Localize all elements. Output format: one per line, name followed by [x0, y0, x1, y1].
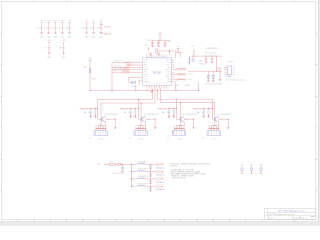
- svg-text:L4 BLM18PG: L4 BLM18PG: [137, 183, 148, 185]
- svg-text:10k: 10k: [167, 112, 170, 114]
- svg-text:J1: J1: [167, 137, 169, 139]
- svg-text:10k: 10k: [128, 112, 131, 114]
- svg-text:C4: C4: [51, 27, 53, 29]
- svg-text:+3V3: +3V3: [47, 20, 51, 22]
- svg-text:J1: J1: [89, 137, 91, 139]
- svg-text:OUT_1: OUT_1: [177, 139, 183, 141]
- svg-text:C8 1u: C8 1u: [199, 61, 203, 63]
- svg-text:Q1_NTR4003NT1G: Q1_NTR4003NT1G: [217, 114, 233, 116]
- svg-text:Sheet: /: Sheet: /: [269, 216, 276, 219]
- svg-text:File: WLED-AdvCtrl.kicad_sch: File: WLED-AdvCtrl.kicad_sch: [269, 213, 294, 216]
- svg-text:+3V3: +3V3: [40, 20, 44, 22]
- svg-text:Q1_NTR4003NT1G: Q1_NTR4003NT1G: [182, 114, 198, 116]
- svg-text:10k: 10k: [197, 112, 200, 114]
- svg-text:OUT_1: OUT_1: [212, 139, 218, 141]
- svg-text:R1: R1: [84, 67, 86, 69]
- svg-text:C9: C9: [82, 27, 84, 29]
- svg-text:OUT_1: OUT_1: [139, 139, 145, 141]
- svg-text:GND_IN: GND_IN: [104, 33, 112, 35]
- svg-text:+5V_CH4: +5V_CH4: [156, 186, 163, 188]
- svg-text:PWM_IN2: PWM_IN2: [120, 108, 129, 110]
- svg-text:J1: J1: [202, 137, 204, 139]
- svg-text:C6 1u: C6 1u: [168, 41, 172, 43]
- svg-text:+5V_CH2: +5V_CH2: [156, 171, 163, 173]
- svg-text:R6 10k: R6 10k: [185, 85, 191, 87]
- svg-text:C3: C3: [44, 27, 46, 29]
- svg-text:PWM_IN1: PWM_IN1: [80, 108, 89, 110]
- svg-text:VIN: VIN: [97, 164, 101, 166]
- svg-text:LED Wall Advance Ctrl: LED Wall Advance Ctrl: [278, 210, 306, 213]
- svg-text:10k: 10k: [88, 112, 91, 114]
- svg-text:PIC16F: PIC16F: [153, 72, 162, 75]
- svg-text:+5V_CH1: +5V_CH1: [156, 164, 163, 166]
- svg-text:C15 100uF 25V: C15 100uF 25V: [113, 173, 126, 175]
- svg-text:+3V3: +3V3: [88, 58, 92, 60]
- svg-text:C5: C5: [58, 27, 60, 29]
- svg-text:C4: C4: [147, 40, 149, 42]
- svg-text:R8 1k: R8 1k: [188, 79, 192, 81]
- svg-text:+3V3: +3V3: [61, 20, 65, 22]
- svg-text:+3V3: +3V3: [47, 40, 51, 42]
- svg-text:R7 10k: R7 10k: [188, 74, 193, 76]
- svg-text:R2 4.7k 1%: R2 4.7k 1%: [115, 61, 124, 63]
- svg-text:+3V3: +3V3: [62, 40, 66, 42]
- svg-text:10k: 10k: [202, 112, 205, 114]
- svg-text:+3V3: +3V3: [68, 20, 72, 22]
- svg-text:U3 AP2112K-3.3: U3 AP2112K-3.3: [205, 47, 218, 50]
- svg-text:PWM_IN3: PWM_IN3: [158, 108, 167, 110]
- svg-text:CONN6: CONN6: [226, 76, 232, 78]
- svg-text:PWM_IN4: PWM_IN4: [193, 108, 202, 110]
- svg-text:C11: C11: [97, 27, 100, 29]
- svg-text:10k: 10k: [84, 112, 87, 114]
- svg-text:10k: 10k: [124, 112, 127, 114]
- svg-text:J5 ICSP: J5 ICSP: [227, 62, 234, 64]
- svg-text:C8: C8: [59, 48, 61, 50]
- svg-text:C6: C6: [65, 27, 67, 29]
- svg-text:J1: J1: [129, 137, 131, 139]
- svg-text:+5V_IN: +5V_IN: [104, 26, 111, 28]
- svg-text:C5: C5: [145, 44, 147, 46]
- svg-text:C2: C2: [37, 27, 39, 29]
- svg-text:Q1_NTR4003NT1G: Q1_NTR4003NT1G: [144, 114, 160, 116]
- svg-text:L1 BLM18PG: L1 BLM18PG: [137, 161, 148, 163]
- svg-text:C9 100n: C9 100n: [199, 64, 205, 66]
- svg-text:L3 BLM18PG: L3 BLM18PG: [137, 176, 148, 178]
- svg-text:+5V_CH3: +5V_CH3: [156, 179, 163, 181]
- svg-text:C7: C7: [45, 48, 47, 50]
- svg-text:10k: 10k: [162, 112, 165, 114]
- svg-text:D3_D4 LED 0603 GRN: D3_D4 LED 0603 GRN: [205, 83, 223, 85]
- svg-text:C12 4.7uF 10V: C12 4.7uF 10V: [205, 52, 217, 54]
- svg-text:REV A 2023-04: REV A 2023-04: [173, 176, 186, 179]
- svg-text:OUT_1: OUT_1: [99, 139, 105, 141]
- svg-text:R5: R5: [177, 85, 179, 87]
- svg-text:+3V3: +3V3: [158, 32, 162, 34]
- svg-text:KiCad E.D.A. 7.0: KiCad E.D.A. 7.0: [294, 217, 308, 220]
- svg-text:C10: C10: [89, 27, 92, 29]
- svg-text:L2 BLM18PG: L2 BLM18PG: [137, 169, 148, 171]
- svg-text:MCLR: MCLR: [92, 79, 98, 81]
- svg-text:Q1_NTR4003NT1G: Q1_NTR4003NT1G: [104, 114, 120, 116]
- svg-text:NOTED.: NOTED.: [171, 166, 179, 168]
- svg-text:1x05 2.54mm header vert: 1x05 2.54mm header vert: [226, 78, 246, 81]
- svg-text:+3V3: +3V3: [54, 20, 58, 22]
